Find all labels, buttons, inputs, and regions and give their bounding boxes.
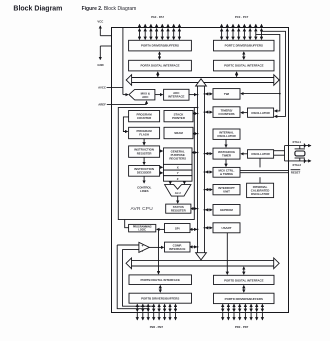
svg-text:LINES: LINES: [140, 189, 149, 193]
svg-text:SPI: SPI: [175, 226, 180, 230]
box: ADC INTERFACE: [164, 89, 189, 100]
svg-text:PORTB DIGITAL INTERFACE: PORTB DIGITAL INTERFACE: [140, 278, 179, 282]
wire WDT-bus: [206, 153, 212, 155]
wire Z to ALU left: [169, 181, 171, 184]
svg-text:PA0 - PA7: PA0 - PA7: [151, 15, 164, 19]
svg-text:USART: USART: [222, 226, 232, 230]
box: STATUS REGISTER: [166, 204, 191, 213]
wire USART-bus: [206, 227, 212, 229]
box: PORTD DIGITAL INTERFACE: [214, 275, 275, 284]
wire PC to FLASH: [123, 117, 128, 132]
wire internal osc to watchdog: [225, 139, 227, 147]
svg-text:VCC: VCC: [97, 19, 103, 23]
wire INT-bus: [206, 189, 212, 191]
AREF pin: [98, 101, 146, 106]
box: PROGRAM FLASH: [129, 127, 160, 138]
XTAL1 pin: [285, 140, 311, 148]
svg-text:EEPROM: EEPROM: [220, 208, 233, 212]
wire comparator output: [149, 246, 163, 248]
svg-text:ALU: ALU: [175, 191, 181, 195]
box: PORTD DRIVERS/BUFFERS: [214, 293, 275, 303]
svg-text:Figure 2. Block Diagram: Figure 2. Block Diagram: [82, 6, 137, 12]
wire MCU to internal calibrated osc: [259, 177, 261, 183]
box: SPI: [165, 224, 191, 233]
svg-text:OSCILLATOR: OSCILLATOR: [251, 192, 270, 196]
svg-text:PORTC DRIVERS/BUFFERS: PORTC DRIVERS/BUFFERS: [225, 44, 263, 48]
VCC pin: [97, 19, 111, 35]
svg-text:Y: Y: [177, 171, 179, 175]
arrow PORTA drivers-digital: [159, 52, 161, 59]
svg-text:REGISTER: REGISTER: [137, 151, 153, 155]
svg-text:PC0 - PC7: PC0 - PC7: [235, 15, 249, 19]
svg-text:COUNTER: COUNTER: [137, 116, 152, 120]
svg-text:X: X: [177, 166, 179, 170]
svg-text:FLASH: FLASH: [139, 133, 149, 137]
box: PORTB DRIVERS/BUFFERS: [129, 293, 192, 303]
svg-text:PB0 - PB7: PB0 - PB7: [150, 325, 164, 329]
PC pins: [222, 24, 262, 39]
wire comparator + input: [117, 244, 139, 246]
XTAL2 pin: [285, 159, 311, 168]
svg-text:COUNTERS: COUNTERS: [218, 112, 234, 116]
svg-text:ADC: ADC: [142, 95, 149, 99]
box: TWI: [213, 89, 240, 100]
box: INSTRUCTION DECODER: [129, 166, 160, 177]
PB pins: [137, 304, 175, 320]
wire TIMERS-bus: [206, 111, 212, 113]
junction dots comparator wraps: [147, 308, 149, 310]
arrow PORTA digital-bus: [157, 72, 159, 77]
svg-text:UNIT: UNIT: [223, 190, 230, 194]
arrow PORTD digital-drivers: [243, 286, 245, 293]
svg-text:OSCILLATOR: OSCILLATOR: [251, 152, 270, 156]
wire TWI-bus: [206, 93, 212, 95]
box: MCU CTRL. & TIMING: [213, 167, 240, 177]
svg-text:PORTB DRIVERS/BUFFERS: PORTB DRIVERS/BUFFERS: [141, 297, 179, 301]
svg-text:TIMER: TIMER: [222, 153, 232, 157]
svg-text:Z: Z: [177, 177, 179, 181]
wire: PA/frame to MUX (analog input) with AVCC join: [123, 28, 128, 95]
svg-text:INTERFACE: INTERFACE: [169, 247, 185, 251]
svg-text:TWI: TWI: [224, 92, 229, 96]
box: WATCHDOG TIMER: [213, 148, 240, 159]
wire Z to ALU right: [183, 181, 185, 184]
svg-text:POINTER: POINTER: [172, 116, 186, 120]
box: PORTA DRIVERS/BUFFERS: [129, 40, 192, 51]
AVCC pin: [98, 85, 123, 89]
svg-text:RESET: RESET: [291, 171, 301, 175]
wire DECODER to control lines: [143, 176, 145, 183]
wire WDT to MCU ctrl: [225, 159, 227, 166]
wire main osc to WDT: [241, 153, 248, 155]
wire MUX to ADC INTERFACE: [155, 94, 163, 96]
box: INSTRUCTION REGISTER: [129, 146, 160, 157]
svg-text:REGISTERS: REGISTERS: [169, 157, 186, 161]
wire MCU-bus: [206, 171, 212, 173]
wire TOSC1 wrap (PC6 to timer oscillator): [256, 34, 280, 111]
svg-text:OSCILLATOR: OSCILLATOR: [217, 134, 236, 138]
box: GENERAL PURPOSE REGISTERS: [164, 148, 193, 165]
box: SRAM: [164, 127, 193, 138]
svg-text:& TIMING: & TIMING: [220, 172, 234, 176]
svg-text:PORTD DIGITAL INTERFACE: PORTD DIGITAL INTERFACE: [224, 278, 263, 282]
wire PROGRAMMING LOGIC up to CPU frame: [125, 220, 129, 228]
svg-text:GND: GND: [97, 63, 103, 67]
CPU frame: [118, 108, 194, 220]
vertical data bus: [196, 79, 207, 260]
wire comparator + wrap to PB2: [117, 245, 148, 309]
box: STACK POINTER: [164, 111, 193, 122]
wire SPI junction down to PORTB digital: [158, 229, 160, 274]
svg-text:PORTA DRIVERS/BUFFERS: PORTA DRIVERS/BUFFERS: [141, 44, 179, 48]
chip outer frame: [112, 28, 289, 313]
top bus (horizontal data bus): [126, 75, 279, 86]
wire IR to GPR: [160, 150, 163, 152]
svg-text:Block Diagram: Block Diagram: [13, 5, 62, 12]
bottom bus (horizontal data bus): [126, 258, 279, 269]
wire comparator - input: [123, 248, 139, 250]
wire COMP-bus: [190, 246, 197, 248]
wire comparator - wrap to PB3: [123, 249, 154, 306]
svg-text:PD0 - PD7: PD0 - PD7: [235, 325, 249, 329]
arrow bus to PORTD digital: [243, 267, 245, 274]
wire IR to X: [161, 166, 163, 168]
svg-text:SRAM: SRAM: [174, 131, 183, 135]
svg-text:AVR CPU: AVR CPU: [131, 206, 154, 212]
register X: [164, 164, 193, 170]
wire STATUS-bus: [191, 208, 197, 210]
wire SPI to PROGRAMMING LOGIC: [157, 228, 165, 230]
svg-text:PORTC DIGITAL INTERFACE: PORTC DIGITAL INTERFACE: [224, 64, 263, 68]
comparator: analog comparator: [139, 242, 149, 253]
box: PORTC DIGITAL INTERFACE: [214, 60, 275, 71]
PD pins: [223, 304, 263, 320]
arrow PORTB digital-drivers: [159, 286, 161, 293]
svg-text:PORTD DRIVERS/BUFFERS: PORTD DRIVERS/BUFFERS: [225, 297, 263, 301]
box: PROGRAMMING LOGIC: [129, 224, 156, 232]
crystal: [295, 146, 305, 161]
wire IR to DECODER: [143, 157, 145, 164]
svg-text:DECODER: DECODER: [137, 171, 152, 175]
wire ALU to STATUS REGISTER: [177, 196, 179, 203]
wire SPI-bus: [190, 228, 197, 230]
alu: ALU: [165, 185, 191, 197]
svg-text:XTAL2: XTAL2: [292, 163, 301, 167]
label: CONTROL LINES: [137, 186, 152, 194]
box: PORTB DIGITAL INTERFACE: [129, 275, 192, 285]
wire SRAM-bus: [193, 133, 197, 135]
svg-text:XTAL1: XTAL1: [292, 140, 301, 144]
wire STACK-bus: [193, 113, 197, 115]
wire EEPROM-bus: [206, 209, 212, 211]
wire USART down to PORTD digital: [226, 233, 228, 274]
box: TIMERS/COUNTERS: [213, 107, 240, 118]
wire MCU to RESET frame: [240, 169, 289, 171]
GND pin: [97, 46, 111, 67]
crystal circuit: oscillator to XTAL pins: [274, 146, 285, 161]
wire timer oscillator to TIMERS: [241, 112, 248, 114]
PA pins: [140, 24, 180, 39]
box: PROGRAM COUNTER: [129, 111, 160, 122]
box: OSCILLATOR (main): [248, 150, 274, 159]
box: EEPROM: [213, 205, 240, 216]
svg-text:LOGIC: LOGIC: [138, 229, 146, 232]
box: INTERNAL OSCILLATOR: [213, 129, 240, 139]
register Z: [164, 176, 193, 182]
box: INTERNAL CALIBRATED OSCILLATOR: [247, 183, 274, 197]
wire TWI to TOSC wrap: [241, 93, 280, 95]
arrow PORTC drivers-digital: [243, 52, 245, 59]
wire GPR-bus: [192, 152, 197, 154]
box: USART: [213, 223, 240, 233]
wire main osc down to MCU: [259, 158, 261, 167]
svg-text:PORTA DIGITAL INTERFACE: PORTA DIGITAL INTERFACE: [140, 64, 179, 68]
wire ADC INTERFACE to bus: [189, 94, 197, 96]
arrow PORTC digital-bus: [236, 72, 238, 77]
svg-text:REGISTER: REGISTER: [171, 209, 187, 213]
box: COMP. INTERFACE: [165, 242, 191, 252]
svg-text:AREF: AREF: [98, 103, 106, 107]
wire IR to Y: [161, 172, 163, 174]
svg-text:AVCC: AVCC: [98, 85, 106, 89]
box: INTERRUPT UNIT: [213, 185, 240, 195]
register Y: [164, 170, 193, 176]
wire TOSC2 wrap (PC7 to timer oscillator): [262, 31, 286, 116]
box: PORTC DRIVERS/BUFFERS: [214, 40, 275, 51]
svg-text:INTERFACE: INTERFACE: [168, 95, 184, 99]
RESET label: [291, 170, 301, 175]
mux: MUX & ADC: [129, 89, 155, 100]
wire FLASH to INSTRUCTION REGISTER: [143, 139, 145, 145]
box: PORTA DIGITAL INTERFACE: [129, 60, 192, 71]
box: OSCILLATOR (timer): [248, 108, 274, 117]
svg-text:OSCILLATOR: OSCILLATOR: [251, 111, 270, 115]
